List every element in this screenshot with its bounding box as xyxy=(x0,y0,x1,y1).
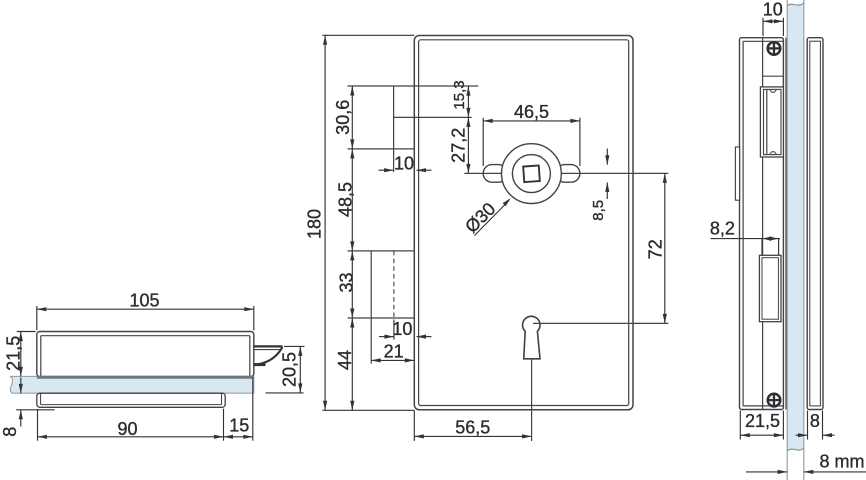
svg-text:8,5: 8,5 xyxy=(590,200,607,221)
svg-text:21,5: 21,5 xyxy=(4,336,24,371)
svg-text:8 mm: 8 mm xyxy=(820,452,865,472)
svg-text:8,2: 8,2 xyxy=(710,218,735,238)
svg-text:56,5: 56,5 xyxy=(455,418,490,438)
svg-text:105: 105 xyxy=(129,291,159,311)
svg-text:8: 8 xyxy=(0,427,20,437)
svg-text:21,5: 21,5 xyxy=(745,411,780,431)
svg-text:44: 44 xyxy=(335,350,355,370)
svg-text:30,6: 30,6 xyxy=(333,100,353,135)
svg-text:72: 72 xyxy=(646,239,666,259)
svg-text:15: 15 xyxy=(229,416,249,436)
svg-text:90: 90 xyxy=(117,419,137,439)
svg-text:10: 10 xyxy=(392,319,412,339)
svg-text:21: 21 xyxy=(384,341,404,361)
svg-text:46,5: 46,5 xyxy=(514,102,549,122)
svg-text:48,5: 48,5 xyxy=(336,182,356,217)
svg-text:10: 10 xyxy=(763,0,783,20)
svg-text:180: 180 xyxy=(305,209,325,239)
svg-text:8: 8 xyxy=(810,411,820,431)
svg-text:10: 10 xyxy=(394,153,414,173)
svg-text:27,2: 27,2 xyxy=(449,128,469,163)
svg-text:15,3: 15,3 xyxy=(451,80,468,109)
svg-text:20,5: 20,5 xyxy=(279,352,299,387)
svg-text:33: 33 xyxy=(337,272,357,292)
